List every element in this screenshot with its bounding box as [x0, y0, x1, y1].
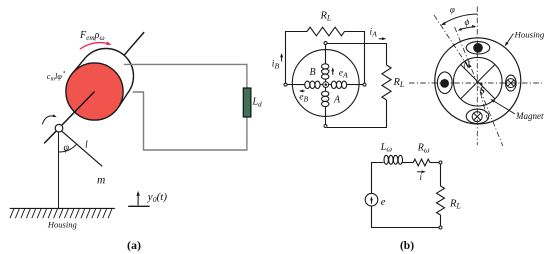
base excitation y0(t) — [128, 191, 167, 207]
emf eA label and arrow — [331, 67, 348, 79]
label Fem rho_omega — [79, 30, 105, 42]
inductor Ld — [243, 88, 262, 117]
terminal node right — [363, 83, 366, 86]
label RL right — [393, 77, 405, 89]
svg-text:RL: RL — [320, 11, 332, 23]
wire right branch with resistor RL — [327, 44, 391, 128]
label Magnet with arrow — [491, 99, 544, 121]
pendulum rod l — [61, 131, 102, 167]
terminal node top — [324, 42, 327, 45]
svg-text:iA: iA — [370, 28, 378, 39]
svg-text:B: B — [310, 67, 316, 78]
wire top from cylinder to Ld loop — [124, 64, 247, 150]
magnet inner circle — [454, 57, 503, 106]
shaft center node — [323, 82, 329, 88]
svg-text:l: l — [85, 140, 88, 151]
winding coil right — [329, 81, 363, 88]
inductor Lw — [380, 142, 403, 165]
svg-text:eA: eA — [339, 69, 348, 80]
svg-text:Rω: Rω — [417, 143, 430, 155]
winding coil left — [287, 81, 323, 88]
label S pole — [480, 87, 485, 97]
rotation arrow at pivot — [42, 114, 57, 124]
svg-text:Femρω: Femρω — [79, 30, 105, 42]
current i arrow — [417, 170, 426, 182]
motor housing outer circle — [435, 38, 521, 124]
svg-text:Housing: Housing — [47, 219, 77, 229]
torque arrow (red) — [80, 42, 112, 50]
label varphi — [450, 5, 455, 15]
svg-text:eB: eB — [299, 93, 308, 104]
svg-text:RL: RL — [449, 199, 461, 211]
svg-text:φ: φ — [64, 142, 70, 153]
terminal node left — [284, 83, 287, 86]
magnet axis phi dash-dot — [455, 27, 503, 146]
svg-text:y0(t): y0(t) — [147, 191, 168, 204]
svg-text:Ld: Ld — [252, 97, 263, 109]
label cm l phidot — [47, 71, 65, 82]
svg-text:e: e — [381, 197, 386, 208]
cylinder body (magnet housing) — [73, 49, 134, 108]
current iB arrow — [272, 53, 283, 71]
label phi — [465, 18, 470, 28]
svg-text:Lω: Lω — [380, 142, 393, 154]
magnet cross diagonal 1 — [461, 65, 495, 99]
label phi (a) — [64, 142, 70, 153]
cylinder front face (red) — [66, 63, 123, 120]
stator slot bottom (current in) — [466, 109, 489, 124]
node top right b2 — [439, 161, 442, 164]
svg-text:φ: φ — [450, 5, 455, 15]
svg-text:Magnet: Magnet — [515, 111, 544, 121]
svg-text:(a): (a) — [127, 238, 141, 252]
stator slot top (current out) — [466, 42, 490, 54]
current iA arrow — [370, 28, 387, 41]
source e — [365, 193, 386, 208]
pivot joint — [55, 124, 63, 132]
svg-text:cmlφ: cmlφ — [47, 72, 62, 83]
housing axis varphi dash-dot — [434, 15, 489, 123]
label RL top — [320, 11, 332, 23]
node bottom right b2 — [439, 226, 442, 229]
svg-text:RL: RL — [393, 77, 405, 89]
angle arc phi — [458, 25, 477, 31]
label N pole — [462, 61, 471, 71]
svg-text:ϕ: ϕ — [465, 18, 470, 28]
stator slot left (current out) — [437, 72, 452, 94]
axis vertical dash-dot — [476, 7, 478, 146]
emf eB label and arrow — [299, 90, 309, 104]
wire left branch with top resistor RL — [286, 27, 365, 83]
label Housing (a) — [47, 219, 77, 229]
resistor RL b2 — [437, 186, 462, 215]
svg-text:iB: iB — [272, 60, 280, 71]
generator housing circle — [292, 50, 359, 117]
angle arc varphi — [441, 14, 478, 25]
caption (b) — [400, 240, 414, 252]
svg-text:(b): (b) — [400, 240, 414, 252]
ground (housing) hatching — [10, 208, 115, 218]
axis horizontal dash-dot — [409, 82, 542, 84]
stator slot right (current in) — [506, 75, 517, 91]
caption (a) — [127, 238, 141, 252]
pendulum shaft (lower segment) — [44, 92, 94, 144]
magnetization arrowheads — [469, 63, 483, 87]
label A winding — [333, 94, 341, 105]
winding coil bottom (A) — [322, 88, 329, 125]
svg-text:i: i — [420, 172, 423, 182]
magnet cross diagonal 2 — [461, 65, 495, 99]
svg-text:m: m — [97, 175, 105, 187]
angle arc phi — [59, 144, 77, 152]
winding coil top (B) — [322, 45, 329, 82]
svg-text:Housing: Housing — [514, 29, 545, 39]
label Housing (motor) with arrow — [505, 29, 545, 46]
wire loop b2 — [372, 163, 441, 228]
label m — [97, 175, 105, 187]
svg-text:S: S — [480, 87, 485, 97]
resistor Rw — [413, 143, 430, 166]
label B winding — [310, 67, 316, 78]
terminal node bottom — [324, 125, 327, 128]
cylinder axis (upper segment) — [124, 32, 144, 56]
label l — [85, 140, 88, 151]
svg-text:A: A — [333, 94, 341, 105]
vertical reference line — [58, 132, 60, 209]
